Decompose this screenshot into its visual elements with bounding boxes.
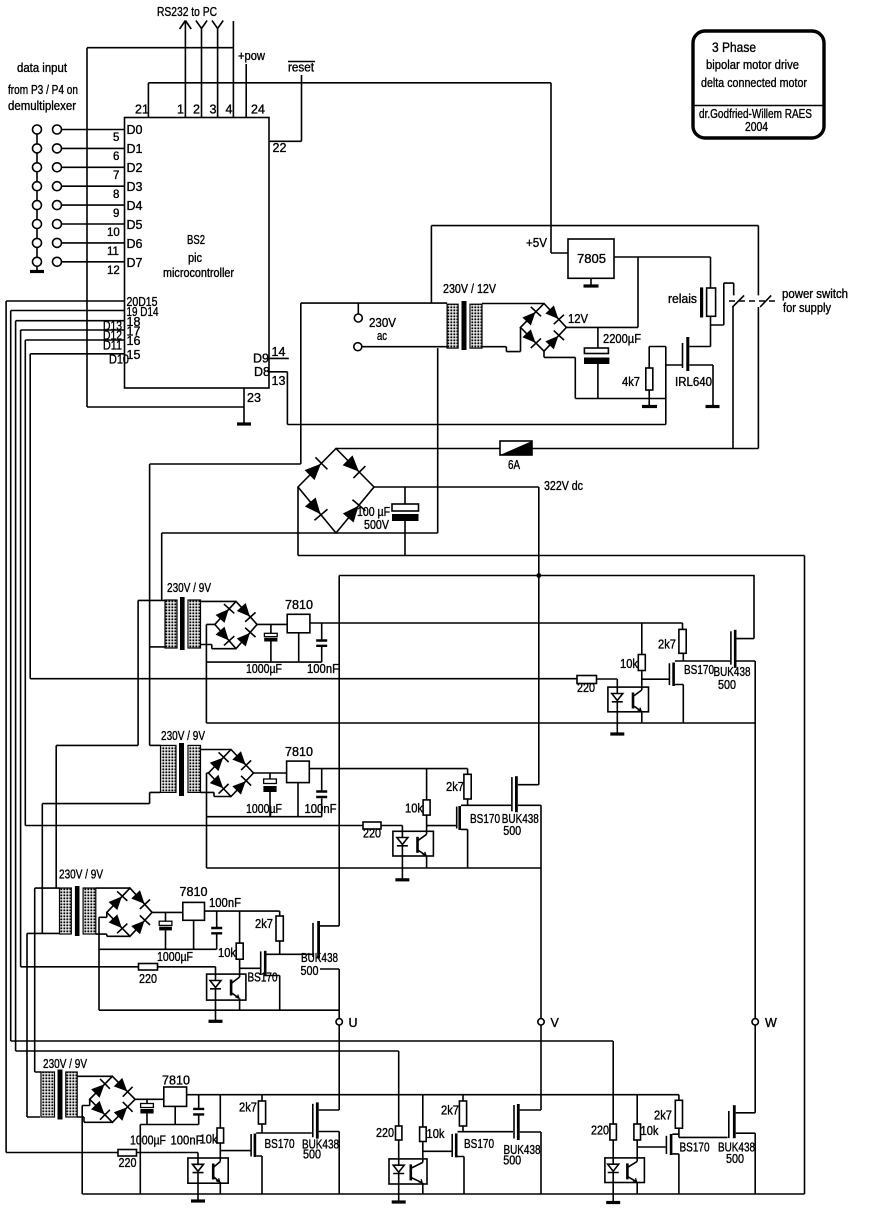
ground OC3 LED xyxy=(209,1020,223,1023)
Q3 channel bar xyxy=(734,630,737,668)
svg-text:10k: 10k xyxy=(620,657,639,671)
svg-text:BS170: BS170 xyxy=(248,971,278,985)
switch S1 slash 2 xyxy=(760,295,771,307)
svg-text:5: 5 xyxy=(113,132,119,144)
data bus vertical D13 xyxy=(15,321,17,1051)
svg-text:1000µF: 1000µF xyxy=(246,662,282,676)
svg-text:10k: 10k xyxy=(427,1127,446,1141)
transformer T4 core xyxy=(75,886,80,936)
title block frame xyxy=(693,31,824,138)
transformer T4 secondary winding xyxy=(83,888,96,934)
Q11 channel bar xyxy=(517,1104,520,1140)
resistor R1 4k7 body xyxy=(646,368,653,390)
wire 12V ground rail xyxy=(544,351,666,398)
wire phase3 cap rail xyxy=(99,948,217,950)
label BUK438 500 cellA xyxy=(302,1138,339,1162)
label 10k cellA xyxy=(200,1133,219,1147)
svg-text:500: 500 xyxy=(303,1148,321,1162)
wire OC5 LED cathode to ground xyxy=(398,1184,400,1201)
svg-text:D1: D1 xyxy=(127,142,143,156)
pin top labels 21 1 2 3 4 24 xyxy=(135,103,265,117)
svg-text:7805: 7805 xyxy=(577,252,606,266)
wire phase2 bottom rail xyxy=(207,867,542,869)
bridge B1 diode top-right xyxy=(342,454,366,478)
label BUK438 500 phase1 xyxy=(714,665,751,692)
svg-text:100nF: 100nF xyxy=(209,896,241,910)
wire Q7 source to U line xyxy=(320,969,339,1010)
ground OC4 LED xyxy=(191,1199,205,1202)
Q1 source lead xyxy=(689,365,713,406)
label BUK438 500 phase3 xyxy=(301,951,339,978)
svg-text:230V / 9V: 230V / 9V xyxy=(167,581,212,595)
capacitor C7 1000uF stub xyxy=(165,912,167,949)
pin 1 wire with up arrow xyxy=(180,21,192,118)
wire chain of column A circles xyxy=(36,134,38,271)
OC4 LED xyxy=(193,1158,204,1183)
wire Q11 drain to V xyxy=(520,1109,541,1111)
svg-text:3 Phase: 3 Phase xyxy=(712,39,756,55)
transformer T2 core xyxy=(180,597,185,650)
svg-text:data input: data input xyxy=(17,61,67,75)
wire BS170 gate lead cellA xyxy=(220,1150,250,1152)
label BUK438 500 phase2 xyxy=(502,812,539,838)
wire OC2 collector to 10k xyxy=(426,815,428,834)
wire secondary top to bridge xyxy=(482,303,544,305)
pin 15 wire xyxy=(30,353,124,355)
Q1 drain lead to relay xyxy=(689,346,710,348)
bridge B4 diode top-left xyxy=(209,752,229,772)
svg-text:24: 24 xyxy=(251,103,265,117)
resistor R2 220 phase1 xyxy=(577,676,597,684)
pin 16 wire xyxy=(25,339,124,341)
wire +12V rail xyxy=(566,257,638,327)
svg-text:2: 2 xyxy=(193,103,200,117)
wire OC2 emitter to rail xyxy=(426,856,428,869)
capacitor C3 plates xyxy=(264,633,277,636)
transistor Q2 BS170 gate bar xyxy=(668,663,670,685)
wire BS170 gate lead cellC xyxy=(637,1146,666,1148)
bridge B6 diode bottom-right xyxy=(113,1102,133,1122)
label 23 xyxy=(247,391,261,405)
svg-text:220: 220 xyxy=(119,1156,137,1170)
optocoupler OC3 body xyxy=(207,974,246,1000)
label: data input header xyxy=(8,61,78,113)
wire B3 minus riser xyxy=(206,624,214,723)
bridge B4 diode bottom-left xyxy=(209,774,229,794)
svg-text:D0: D0 xyxy=(127,123,143,137)
wire D15 control line xyxy=(6,1152,118,1154)
wire 7810 output rail phase2 xyxy=(309,768,467,770)
svg-text:220: 220 xyxy=(139,972,157,986)
bridge rectifier B6 diamond xyxy=(90,1076,135,1122)
svg-text:U: U xyxy=(349,1016,358,1030)
wire D12 control line xyxy=(21,966,139,968)
svg-text:1000µF: 1000µF xyxy=(246,802,282,816)
bridge B4 diode bottom-right xyxy=(232,776,252,796)
label 100uF 500V xyxy=(357,505,390,532)
transistor Q1 IRL640 channel bar xyxy=(686,337,689,371)
capacitor C5 1000uF stub xyxy=(269,773,271,817)
svg-text:BS170: BS170 xyxy=(464,1137,494,1151)
optocoupler OC1 body xyxy=(608,687,649,712)
bridge B1 diode bottom-left xyxy=(304,496,328,520)
resistor R13 2k7 cellA xyxy=(261,1095,263,1101)
wire terminal N to transformer primary xyxy=(362,346,447,348)
transistor Q8 BS170 gate bar xyxy=(250,1134,252,1157)
wire OC4 emitter to rail xyxy=(219,1182,221,1194)
label BUK438 500 cellC xyxy=(718,1141,755,1167)
svg-text:D2: D2 xyxy=(127,161,143,175)
wire Q4 source to rail xyxy=(461,829,468,868)
resistor R14 220 cellB xyxy=(396,1126,402,1140)
svg-text:7810: 7810 xyxy=(162,1074,190,1088)
wire OC5 emitter to rail xyxy=(422,1183,424,1194)
OC2 transistor xyxy=(416,837,419,853)
label 10k phase1 xyxy=(620,657,639,671)
labels D9 D8 14 13 xyxy=(253,345,285,388)
bridge rectifier B4 diamond xyxy=(209,750,254,797)
data bus vertical D10 xyxy=(29,354,31,679)
optocoupler OC4 body xyxy=(188,1158,228,1183)
wire Q3 source to W line xyxy=(737,660,756,662)
svg-text:2k7: 2k7 xyxy=(255,917,273,931)
svg-text:BS170: BS170 xyxy=(265,1137,295,1151)
bridge B1 diode bottom-right xyxy=(342,500,366,524)
resistor R15 10k cellB xyxy=(422,1095,424,1127)
230V ac box left edge wire xyxy=(300,303,302,464)
pin 23 wire xyxy=(243,388,245,423)
label 10k cellC xyxy=(641,1124,660,1138)
wire Q10 source to rail xyxy=(458,1157,465,1195)
transformer T2 secondary winding xyxy=(188,600,201,648)
wire relay top stub xyxy=(710,257,712,288)
wire D6 input xyxy=(62,242,125,244)
wire Q8 source to rail xyxy=(256,1156,262,1194)
wire T3 secondary top to bridge xyxy=(201,749,232,751)
wire OC4 LED cathode to ground xyxy=(197,1183,199,1199)
wire 0V bus down right side xyxy=(804,556,806,1195)
transformer T5 secondary winding xyxy=(66,1072,77,1117)
wire D2 input xyxy=(62,166,125,168)
Q6 channel bar xyxy=(264,951,267,977)
resistor R8 220 phase3 xyxy=(139,964,158,971)
wire B1 DC+ 322V xyxy=(374,486,539,488)
label 2k7 cellA xyxy=(239,1101,257,1115)
wire to pin 23 ground xyxy=(87,406,244,408)
transistor Q12 BS170 gate bar xyxy=(665,1136,667,1154)
optocoupler OC2 body xyxy=(393,831,434,856)
wire Q6 drain / Q7 gate node xyxy=(267,941,314,954)
wire left rail down xyxy=(86,48,88,407)
wire OC3 collector to 10k xyxy=(239,959,241,977)
switch S1 slash 1 xyxy=(733,295,745,307)
pin 4 wire xyxy=(232,21,234,118)
OC2 LED xyxy=(397,831,408,856)
supply box top edge wire xyxy=(431,225,758,227)
data bus vertical D11 xyxy=(24,340,26,826)
label relais xyxy=(668,292,697,306)
bridge B5 diode top-right xyxy=(131,890,151,909)
svg-text:12: 12 xyxy=(107,265,120,277)
OC6 LED xyxy=(608,1158,619,1183)
data bus vertical D12 xyxy=(20,330,22,967)
ground Q1 source xyxy=(706,405,720,408)
bridge B6 diode top-left xyxy=(90,1079,110,1099)
svg-text:12V: 12V xyxy=(568,312,589,326)
resistor R18 10k cellC xyxy=(636,1095,638,1124)
svg-text:2k7: 2k7 xyxy=(654,1109,672,1123)
wire live feed left xyxy=(150,464,301,745)
wire B4 minus riser xyxy=(207,773,209,868)
resistor R9 10k phase3 xyxy=(239,911,241,943)
terminal circle mains L xyxy=(354,314,362,322)
label 230V / 12V xyxy=(443,282,497,296)
transformer T4 primary winding xyxy=(60,888,72,934)
wire D0 input xyxy=(62,129,125,131)
OC1 transistor xyxy=(632,693,635,709)
bridge B5 diode bottom-left xyxy=(108,914,128,933)
label 22 xyxy=(273,141,287,155)
wire Q7 drain to 322V bus xyxy=(320,925,339,927)
node V circle and wire xyxy=(540,805,542,1018)
bridge B3 diode top-left xyxy=(215,604,235,623)
wire Q5 drain to 322V feed xyxy=(518,784,539,786)
svg-text:power switch: power switch xyxy=(782,287,848,301)
label 7810 phase4 xyxy=(162,1074,190,1088)
wire B5 minus riser xyxy=(99,912,107,1010)
wire 7810 output rail phase3 xyxy=(205,910,280,912)
bridge B2 diode top-right xyxy=(544,305,564,324)
terminal circle mains N xyxy=(354,343,362,351)
capacitor C3 1000uF stub xyxy=(270,624,272,662)
svg-text:230V / 9V: 230V / 9V xyxy=(161,729,206,743)
svg-text:BS170: BS170 xyxy=(684,663,714,677)
svg-text:8: 8 xyxy=(113,189,119,201)
svg-text:D5: D5 xyxy=(127,218,143,232)
label BUK438 500 cellB xyxy=(503,1143,540,1168)
bridge B6 diode bottom-left xyxy=(90,1100,110,1120)
label 10k phase3 xyxy=(218,946,237,960)
svg-text:10k: 10k xyxy=(218,946,237,960)
pin 18 wire xyxy=(16,320,125,322)
wire phase1 cap rail xyxy=(206,661,321,663)
wire +10V bottom bus xyxy=(187,1094,679,1096)
svg-text:2k7: 2k7 xyxy=(239,1101,257,1115)
wire 7810 output rail phase1 xyxy=(310,622,683,624)
resistor R17 220 cellC xyxy=(610,1124,617,1140)
resistor R5 220 phase2 xyxy=(363,822,381,829)
svg-text:10: 10 xyxy=(107,227,120,239)
wire D13 control line xyxy=(16,1050,399,1052)
label 220 cellC xyxy=(591,1124,609,1138)
wire bottom ground rail xyxy=(82,1193,804,1195)
label 100nF phase4 xyxy=(171,1134,203,1148)
svg-text:BUK438: BUK438 xyxy=(301,951,338,965)
pin labels 20 D15 / 19 D14 / 18 17 16 15 xyxy=(127,295,159,362)
transistor Q4 BS170 gate bar xyxy=(456,807,458,829)
Q1 gate lead xyxy=(666,364,683,366)
wire BS170 gate lead phase3 xyxy=(240,967,261,969)
capacitor C4 100nF phase1 xyxy=(321,623,323,662)
wire OC3 emitter to rail xyxy=(239,998,241,1010)
svg-text:demultiplexer: demultiplexer xyxy=(8,99,76,113)
data bus vertical D15 xyxy=(5,301,7,1153)
transformer T3 primary winding xyxy=(161,745,177,792)
label BS170 cellA xyxy=(265,1137,295,1151)
label 1000uF phase4 xyxy=(130,1134,166,1148)
svg-text:6A: 6A xyxy=(508,458,521,472)
svg-text:D6: D6 xyxy=(127,237,143,251)
wire phase1 primary top xyxy=(138,599,165,601)
bridge B4 diode top-right xyxy=(232,751,252,771)
wire 220 to opto LED xyxy=(597,679,618,687)
label 1000uF phase1 xyxy=(246,662,282,676)
resistor R16 2k7 cellB xyxy=(462,1095,464,1101)
svg-text:2200µF: 2200µF xyxy=(603,332,641,346)
title block divider xyxy=(693,105,824,107)
label 2k7 phase2 xyxy=(446,780,464,794)
bridge B2 diode bottom-left xyxy=(521,329,541,348)
wire Q5 source to V line xyxy=(518,804,541,806)
label 7810 phase1 xyxy=(285,598,313,612)
connector J1 input circles column B xyxy=(53,125,62,266)
Q2 channel bar xyxy=(672,663,675,687)
OC5 LED xyxy=(393,1159,404,1184)
svg-text:500: 500 xyxy=(503,1154,521,1168)
wire neutral jog down xyxy=(56,600,138,888)
capacitor C7 plates xyxy=(159,921,172,925)
wire OC6 LED cathode to ground xyxy=(612,1183,614,1202)
230V ac box top wire xyxy=(301,302,447,304)
svg-text:+5V: +5V xyxy=(526,236,548,250)
bridge B2 diode top-left xyxy=(521,307,541,326)
wire Q9 source to rail xyxy=(319,1132,340,1195)
OC5 transistor xyxy=(410,1164,413,1180)
svg-text:220: 220 xyxy=(577,681,595,695)
wire T4 secondary top to bridge xyxy=(96,887,130,889)
regulator U5 7810 body xyxy=(183,902,205,920)
label BS170 cellB xyxy=(464,1137,494,1151)
transformer T2 primary winding xyxy=(165,600,177,648)
label 4k7 xyxy=(622,375,640,389)
data bus vertical D14 xyxy=(10,311,12,1042)
Q13 channel bar xyxy=(733,1105,736,1138)
pin 20 D15 wire xyxy=(6,300,124,302)
label 2k7 cellC xyxy=(654,1109,672,1123)
svg-text:2k7: 2k7 xyxy=(441,1104,459,1118)
wire 220 to opto LED phase2 xyxy=(381,826,402,832)
wire mains live to bridge fuse rail xyxy=(336,448,500,450)
wire mains neutral bus xyxy=(162,532,438,534)
label 230V ac xyxy=(369,316,397,343)
svg-text:21: 21 xyxy=(135,103,149,117)
wire fuse to switch rail xyxy=(532,448,758,450)
wire 220 to opto LED cellC xyxy=(612,1140,614,1158)
wire 322V bus down to phase3 xyxy=(338,576,340,926)
wire BS170 gate lead phase2 xyxy=(427,825,457,827)
title block text xyxy=(699,39,812,134)
Q10 channel bar xyxy=(455,1133,458,1157)
wire D3 input xyxy=(62,185,125,187)
svg-text:D11: D11 xyxy=(103,339,122,353)
bridge B3 diode top-right xyxy=(236,602,256,621)
node U circle and wire xyxy=(338,1010,340,1018)
wire pin21 to +5V xyxy=(148,83,568,253)
OC3 transistor xyxy=(230,980,233,996)
svg-text:1000µF: 1000µF xyxy=(157,950,193,964)
Q9 channel bar xyxy=(316,1102,319,1138)
wire T4 secondary bottom to bridge xyxy=(96,934,130,936)
label power switch for supply xyxy=(782,287,848,315)
svg-text:BS170: BS170 xyxy=(470,812,500,826)
wire D10 control line xyxy=(30,678,577,680)
wire Q4 drain / Q5 gate node xyxy=(461,799,511,805)
wire 220 to opto LED cellB xyxy=(398,1140,400,1159)
transistor Q1 IRL640 gate bar xyxy=(682,343,684,368)
label 220 phase3 xyxy=(139,972,157,986)
resistor R10 2k7 phase3 xyxy=(279,911,281,916)
capacitor C2 plates xyxy=(392,504,419,511)
transformer T1 secondary winding xyxy=(470,304,482,348)
wire 7810 ground pin phase2 xyxy=(297,783,299,817)
svg-text:D7: D7 xyxy=(127,256,143,270)
fuse F1 6A fill xyxy=(500,441,532,455)
bridge B6 diode top-right xyxy=(113,1077,133,1097)
transistor Q3 BUK438 gate bar xyxy=(730,631,732,664)
ground below connector chain xyxy=(30,270,44,273)
svg-text:D4: D4 xyxy=(127,199,143,213)
wire B6 minus riser xyxy=(82,1099,90,1194)
transistor Q10 BS170 gate bar xyxy=(451,1134,453,1157)
label BS170 phase3 xyxy=(248,971,278,985)
svg-text:relais: relais xyxy=(668,292,697,306)
net labels D13 D12 D11 D10 xyxy=(103,319,129,367)
svg-text:pic: pic xyxy=(188,251,202,265)
svg-text:220: 220 xyxy=(591,1124,609,1138)
transistor Q11 BUK438 gate bar xyxy=(513,1105,515,1139)
wire phase2 cap rail xyxy=(207,816,322,818)
svg-text:V: V xyxy=(551,1016,560,1030)
svg-text:500: 500 xyxy=(301,964,319,978)
wire phase3 primary top feed xyxy=(35,888,60,1072)
wire 7810 ground pin xyxy=(298,633,300,662)
bridge rectifier B3 diamond xyxy=(215,601,257,648)
Q8 channel bar xyxy=(254,1134,257,1158)
wire D11 control line xyxy=(25,825,363,827)
wire relay arm to switch xyxy=(711,283,734,346)
wire Q12 source to rail xyxy=(672,1154,679,1194)
svg-text:220: 220 xyxy=(363,827,381,841)
bridge B3 diode bottom-left xyxy=(215,626,235,645)
optocoupler OC6 body xyxy=(605,1158,645,1183)
wire OC1 collector to 10k xyxy=(641,671,643,691)
ground OC6 LED xyxy=(606,1201,620,1204)
resistor R11 220 cellA xyxy=(118,1150,137,1157)
svg-text:D9: D9 xyxy=(253,352,269,366)
transformer T3 secondary winding xyxy=(188,745,201,792)
svg-text:ac: ac xyxy=(377,329,387,343)
wire Q9 drain to U xyxy=(319,1109,340,1111)
wire D5 input xyxy=(62,223,125,225)
svg-text:10k: 10k xyxy=(641,1124,660,1138)
wire 7810 ground pin phase3 xyxy=(193,920,195,949)
pin 3 wire with down arrow xyxy=(212,21,223,118)
pin 24 wire xyxy=(245,64,247,118)
resistor R1 4k7 branch xyxy=(649,347,666,399)
wire B3 plus to 7810 xyxy=(257,623,287,625)
svg-text:from P3 / P4 on: from P3 / P4 on xyxy=(8,83,78,97)
label 220 phase1 xyxy=(577,681,595,695)
